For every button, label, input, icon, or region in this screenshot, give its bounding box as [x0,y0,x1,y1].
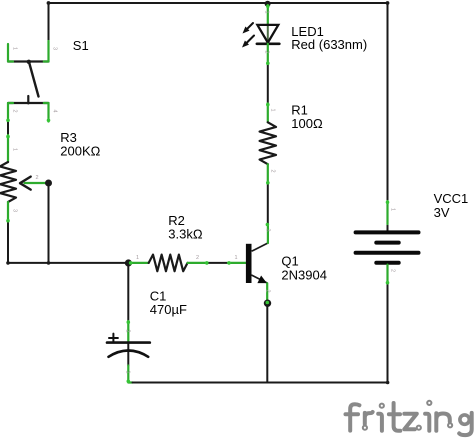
svg-text:2: 2 [390,269,396,272]
svg-text:2: 2 [36,175,39,181]
svg-text:470µF: 470µF [150,302,187,317]
node emitter junction dot [264,300,271,307]
node bottom-right bendpoint [386,381,390,385]
LED LED1 [242,5,279,65]
node top-left bendpoint [47,1,51,5]
wire emitter down [266,304,268,383]
svg-text:Red (633nm): Red (633nm) [291,37,367,52]
wire R1 to Q1 collector [267,184,269,223]
node wiper junction dot [45,180,52,187]
svg-text:3: 3 [12,209,18,212]
svg-text:VCC1: VCC1 [434,191,469,206]
svg-text:2: 2 [270,170,276,173]
wire battery down [387,284,389,383]
node R3 corner bendpoint [6,261,10,265]
svg-text:1: 1 [136,255,139,261]
svg-text:4: 4 [52,110,58,113]
svg-text:1: 1 [264,11,270,14]
wire left drop to S1 [48,3,50,41]
svg-text:2N3904: 2N3904 [281,267,327,282]
svg-text:Q1: Q1 [281,254,298,269]
fritzing logo [346,401,472,435]
wire LED to R1 [267,65,269,104]
svg-text:200KΩ: 200KΩ [60,143,100,158]
battery VCC1 [356,201,419,284]
svg-text:1: 1 [125,371,131,374]
svg-text:3.3kΩ: 3.3kΩ [168,226,203,241]
transistor Q1 [228,223,271,303]
svg-text:2: 2 [125,330,131,333]
svg-text:3: 3 [265,229,271,232]
svg-text:2: 2 [265,290,271,293]
wire R3 bottom to C1 junction [8,222,128,263]
potentiometer R3 [0,135,49,222]
node top-right bendpoint [386,1,390,5]
svg-text:1: 1 [270,109,276,112]
wire bottom rail [133,382,388,384]
svg-text:2: 2 [196,255,199,261]
svg-text:100Ω: 100Ω [291,116,323,131]
wire C1 top [127,262,129,321]
resistor R2 [128,255,208,272]
svg-text:3: 3 [52,47,58,50]
capacitor C1 [107,321,150,383]
resistor R1 [260,103,276,184]
pin terminal dots [6,5,389,384]
wire wiper down [48,183,50,263]
wire right rail [387,3,389,201]
node wiper T bendpoint [47,261,51,265]
svg-text:1: 1 [12,148,18,151]
svg-text:1: 1 [12,47,18,50]
switch S1 [8,41,58,122]
wire R2 to Q1 base [208,262,228,264]
svg-text:1: 1 [390,208,396,211]
svg-text:1: 1 [235,255,238,261]
node LED junction [265,1,271,7]
wire S1 to R3 [7,122,9,136]
svg-text:S1: S1 [73,38,89,53]
svg-text:3V: 3V [434,205,450,220]
wire top rail [49,2,388,4]
svg-text:2: 2 [264,51,270,54]
node C1/R2 junction dot [125,259,132,266]
svg-text:2: 2 [12,110,18,113]
